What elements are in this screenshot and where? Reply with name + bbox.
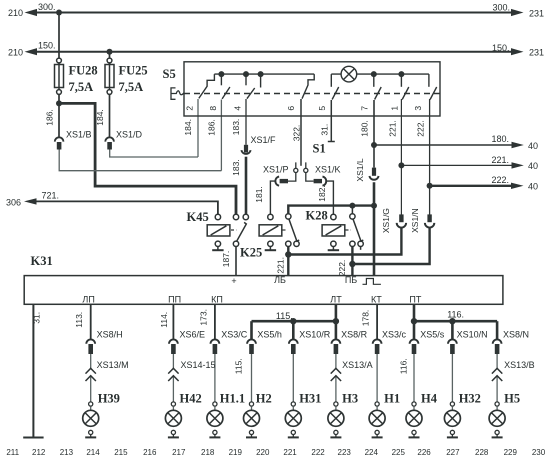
svg-text:210: 210 xyxy=(8,47,23,57)
lamp circuit H3 wire xyxy=(335,304,338,339)
svg-text:222.: 222. xyxy=(416,120,426,137)
lamp H42 xyxy=(171,402,175,406)
S5 fixed stub pin3 xyxy=(428,74,430,87)
wire thick highlight FU28 to K45 contact xyxy=(59,103,236,214)
wire S5 pin7 down xyxy=(373,100,375,145)
svg-text:181.: 181. xyxy=(254,186,264,203)
wire XS5/h to lamp H2 xyxy=(251,354,253,402)
wire 182 XS1/K to K28 coil xyxy=(327,181,334,214)
node 210 left arrow on bus 300 xyxy=(25,9,38,16)
wire thick XS1/G down and left to LB node xyxy=(288,228,401,255)
wire XS8/H to lamp H39 xyxy=(90,354,92,402)
svg-text:ЛТ: ЛТ xyxy=(330,295,342,305)
svg-text:223: 223 xyxy=(338,448,352,457)
svg-text:221.: 221. xyxy=(492,155,510,165)
svg-text:224: 224 xyxy=(365,448,379,457)
svg-text:XS1/D: XS1/D xyxy=(116,129,143,139)
svg-text:222.: 222. xyxy=(337,260,347,277)
svg-text:222: 222 xyxy=(311,448,325,457)
S5 fixed stub pin4 xyxy=(245,74,247,85)
svg-text:7,5A: 7,5A xyxy=(69,80,94,94)
lamp circuit H42 wire xyxy=(172,304,174,339)
wire 31 ground from K31 xyxy=(23,304,43,437)
wire 221 output to node 40 xyxy=(401,164,516,166)
junction bus150/FU25 xyxy=(107,49,113,55)
svg-text:221.: 221. xyxy=(388,120,398,137)
wire 721 to node 306 from K45 coil xyxy=(37,201,218,214)
svg-text:XS6/E: XS6/E xyxy=(180,329,206,339)
K45 mech link xyxy=(231,229,237,231)
svg-text:XS1/L: XS1/L xyxy=(355,158,365,181)
svg-text:217: 217 xyxy=(172,448,186,457)
connector XS1/L xyxy=(369,168,378,180)
connector XS1/D xyxy=(105,137,114,149)
svg-text:H2: H2 xyxy=(256,391,272,405)
relay K45 contact xyxy=(233,214,248,246)
svg-text:40: 40 xyxy=(528,141,538,151)
node 231 right arrow on bus 300 xyxy=(511,9,524,16)
ground under lamp H42 xyxy=(172,435,174,438)
svg-text:8: 8 xyxy=(208,106,218,111)
lamp circuit H1.1 wire xyxy=(214,304,216,339)
svg-text:180.: 180. xyxy=(360,120,370,137)
lamp H1.1 xyxy=(213,402,217,406)
lamp H32 xyxy=(450,402,454,406)
svg-text:ПТ: ПТ xyxy=(409,295,421,305)
svg-text:XS8/N: XS8/N xyxy=(503,329,529,339)
connector XS13/M xyxy=(86,368,96,381)
connector XS13/B xyxy=(492,368,502,381)
junction wire221 xyxy=(398,162,404,168)
svg-text:180.: 180. xyxy=(492,134,510,144)
lamp circuit H32 wire xyxy=(451,321,454,339)
S5 contact pin3 blade xyxy=(430,87,437,100)
lamp H1 xyxy=(375,402,379,406)
node 231 right arrow on bus 150 xyxy=(511,48,524,55)
svg-text:6: 6 xyxy=(286,106,296,111)
K31 pulse symbol xyxy=(363,279,381,285)
node 210 left arrow on bus 150 xyxy=(25,48,38,55)
lamp H39 xyxy=(89,402,93,406)
ground under lamp H2 xyxy=(251,435,253,438)
svg-text:221.: 221. xyxy=(276,257,286,274)
junction wire222 xyxy=(427,183,433,189)
S5 actuator handle xyxy=(171,88,184,99)
connector XS1/N xyxy=(425,214,434,227)
wire S5 pin5 to ground tail 31 xyxy=(328,100,335,142)
svg-text:216: 216 xyxy=(143,448,157,457)
svg-text:XS1/N: XS1/N xyxy=(410,208,420,233)
svg-text:H39: H39 xyxy=(98,391,120,405)
wire thick XS1/N down and left to PB node xyxy=(352,228,429,265)
wire XS8/N to lamp H5 xyxy=(496,354,498,402)
svg-text:226: 226 xyxy=(417,448,431,457)
svg-text:300.: 300. xyxy=(493,3,511,13)
svg-text:231: 231 xyxy=(529,48,544,58)
svg-text:S1: S1 xyxy=(313,142,326,156)
connector XS1/K xyxy=(314,177,327,186)
svg-text:115.: 115. xyxy=(276,311,293,321)
wire FU25 bottom to XS1/D xyxy=(109,95,111,138)
connector XS8/N xyxy=(493,339,502,343)
wire FU28 junction down to XS1/B xyxy=(58,103,60,137)
S5 internal top bus left xyxy=(214,73,314,75)
S1 contact circles xyxy=(294,168,298,172)
connector XS1/G xyxy=(397,214,406,227)
wire PB K28 contact down to K31 xyxy=(351,247,353,277)
svg-text:3: 3 xyxy=(413,106,423,111)
relay K25 coil xyxy=(259,214,282,250)
svg-text:306: 306 xyxy=(6,197,21,207)
svg-text:H31: H31 xyxy=(299,391,321,405)
svg-text:213: 213 xyxy=(60,448,74,457)
ground under lamp H32 xyxy=(451,435,453,438)
svg-text:1: 1 xyxy=(390,106,400,111)
wire S5 pin8 down xyxy=(220,100,222,171)
wire 115 distribution from LT xyxy=(252,320,336,323)
wire 184 gray from XS1/D to S5 pin2 xyxy=(110,150,198,158)
wire 186 gray from XS1/B to S5 pin8 xyxy=(59,150,221,171)
svg-text:H5: H5 xyxy=(504,391,520,405)
junction LB wire254 xyxy=(285,251,291,257)
S5 fixed stub pin8 xyxy=(220,74,222,85)
junction PB wire264 xyxy=(349,261,355,267)
connector XS14-15 xyxy=(168,368,178,381)
svg-text:210: 210 xyxy=(8,8,23,18)
svg-text:150.: 150. xyxy=(492,43,510,53)
wire from bus150 down to FU25 xyxy=(109,52,111,58)
svg-text:227: 227 xyxy=(446,448,460,457)
connector XS10/R xyxy=(289,339,298,343)
svg-text:182.: 182. xyxy=(317,185,327,202)
wire XS10/R to lamp H31 xyxy=(292,354,294,402)
wire bus 300 xyxy=(33,12,517,14)
svg-text:K31: K31 xyxy=(31,254,53,268)
svg-text:ЛП: ЛП xyxy=(82,295,94,305)
K25 mech link xyxy=(283,229,288,231)
wire pin7 to XS1/L xyxy=(373,145,375,168)
fuse FU25 7,5A xyxy=(105,58,114,94)
svg-text:4: 4 xyxy=(233,106,243,111)
junction S5 bus pin7 xyxy=(371,71,377,77)
svg-text:173.: 173. xyxy=(199,309,209,326)
svg-text:184.: 184. xyxy=(183,119,193,136)
svg-text:40: 40 xyxy=(528,181,538,191)
connector XS3/c xyxy=(373,339,382,343)
wire S5 pin6 down to S1 xyxy=(300,99,302,166)
svg-text:КП: КП xyxy=(211,295,223,305)
svg-text:187.: 187. xyxy=(221,251,231,268)
S5 contact pin4 blade xyxy=(247,88,255,99)
relay K25 contact xyxy=(286,214,300,247)
S5 dashed actuator line xyxy=(184,93,440,95)
svg-text:229: 229 xyxy=(504,448,518,457)
wire 116 distribution from PT xyxy=(414,320,497,323)
connector XS1/B xyxy=(55,137,64,149)
ground under lamp H5 xyxy=(496,435,498,438)
connector XS10/N xyxy=(448,339,457,343)
svg-text:FU28: FU28 xyxy=(69,63,98,77)
wire XS5/s to lamp H4 xyxy=(413,354,415,402)
svg-text:721.: 721. xyxy=(42,191,60,201)
svg-text:31.: 31. xyxy=(32,312,42,324)
S5 contact pin8 blade xyxy=(222,87,230,99)
svg-text:228: 228 xyxy=(475,448,489,457)
svg-text:322.: 322. xyxy=(291,125,301,142)
ground under lamp H1.1 xyxy=(214,435,216,438)
svg-text:7,5A: 7,5A xyxy=(119,80,144,94)
svg-text:220: 220 xyxy=(256,448,270,457)
relay K28 contact xyxy=(350,206,364,250)
svg-text:215: 215 xyxy=(114,448,128,457)
svg-text:178.: 178. xyxy=(361,310,371,327)
wire XS8/R to lamp H3 xyxy=(335,354,337,402)
svg-text:222.: 222. xyxy=(492,175,510,185)
lamp H3 xyxy=(334,402,338,406)
svg-text:231: 231 xyxy=(529,9,544,19)
connector XS5/s xyxy=(410,339,419,343)
svg-text:H1: H1 xyxy=(384,391,400,405)
lamp circuit H1 wire xyxy=(376,304,378,339)
lamp circuit H5 wire xyxy=(496,321,499,339)
svg-text:300.: 300. xyxy=(38,2,56,12)
svg-text:XS13/M: XS13/M xyxy=(97,360,129,370)
wire thick XS1/L down to K31 KT xyxy=(373,182,376,276)
wire pin3 to XS1/N xyxy=(429,186,431,215)
connector XS1/P xyxy=(275,177,288,186)
switch S5 box xyxy=(184,62,440,116)
svg-text:114.: 114. xyxy=(159,312,169,328)
svg-text:5: 5 xyxy=(317,106,327,111)
wire 187 K45 contact to K31 plus xyxy=(235,247,237,277)
junction S5 bus pin1 xyxy=(398,71,404,77)
svg-text:H3: H3 xyxy=(342,391,358,405)
junction wire180 xyxy=(371,142,377,148)
wire XS10/N to lamp H32 xyxy=(451,354,453,402)
S5 contact pin6 blade and step xyxy=(302,74,314,99)
svg-text:K25: K25 xyxy=(240,246,262,260)
ground under lamp H3 xyxy=(335,435,337,438)
wire S1 left to XS1/P xyxy=(288,173,296,181)
svg-text:221: 221 xyxy=(283,448,297,457)
lamp circuit H2 wire xyxy=(250,321,253,339)
svg-text:+: + xyxy=(231,276,236,286)
svg-text:H32: H32 xyxy=(459,391,481,405)
wire thick to K25/K28 contacts xyxy=(288,206,374,214)
lamp H4 xyxy=(412,402,416,406)
ground under lamp H31 xyxy=(292,435,294,438)
svg-text:225: 225 xyxy=(392,448,406,457)
svg-text:XS1/G: XS1/G xyxy=(381,208,391,233)
svg-text:7: 7 xyxy=(359,106,369,111)
S5 contact pin2 blade and step xyxy=(199,74,215,98)
S5 contact pin1 blade xyxy=(402,87,409,100)
wire pin1 to XS1/G xyxy=(400,165,402,214)
svg-text:XS1/K: XS1/K xyxy=(315,164,341,174)
svg-text:XS3/C: XS3/C xyxy=(221,329,248,339)
svg-text:XS14-15: XS14-15 xyxy=(181,360,216,370)
connector XS13/A xyxy=(331,368,341,381)
wire 183 thick XS1/F to K45 contact xyxy=(245,157,248,215)
S5 fixed stub pin1 xyxy=(400,74,402,87)
svg-text:XS3/c: XS3/c xyxy=(382,329,407,339)
svg-text:211: 211 xyxy=(6,448,19,457)
svg-text:S5: S5 xyxy=(163,67,176,81)
svg-text:115.: 115. xyxy=(234,358,244,374)
svg-text:183.: 183. xyxy=(231,119,241,136)
svg-text:186.: 186. xyxy=(206,119,216,136)
svg-text:113.: 113. xyxy=(74,312,84,328)
svg-text:40: 40 xyxy=(528,161,538,171)
svg-text:FU25: FU25 xyxy=(119,63,148,77)
lamp H2 xyxy=(249,402,253,406)
wire XS3/C to lamp H1.1 xyxy=(214,354,216,402)
svg-text:H1.1: H1.1 xyxy=(220,391,245,405)
wire 181 XS1/P to K25 coil xyxy=(270,181,275,214)
connector XS3/C xyxy=(211,339,220,343)
lamp H5 xyxy=(495,402,499,406)
S5 fixed stub mid xyxy=(260,74,262,87)
svg-text:31.: 31. xyxy=(320,124,330,136)
svg-text:186.: 186. xyxy=(45,109,55,126)
S5 illumination lamp xyxy=(341,66,357,82)
wire XS6/E to lamp H42 xyxy=(172,354,174,402)
S5 fixed stub pin5 xyxy=(330,74,332,87)
svg-text:H42: H42 xyxy=(180,391,202,405)
svg-text:XS1/F: XS1/F xyxy=(251,135,277,145)
wire S5 pin3 down xyxy=(429,99,431,186)
relay box K31 xyxy=(24,276,503,305)
relay K28 coil xyxy=(322,214,345,250)
relay K45 coil xyxy=(207,214,230,250)
svg-text:K45: K45 xyxy=(187,210,209,224)
svg-text:ПП: ПП xyxy=(168,295,181,305)
svg-text:214: 214 xyxy=(86,448,100,457)
svg-text:XS1/P: XS1/P xyxy=(263,164,289,174)
svg-text:XS5/s: XS5/s xyxy=(420,329,445,339)
svg-text:XS1/B: XS1/B xyxy=(66,129,92,139)
S5 contact pin7 blade xyxy=(375,87,382,100)
svg-text:КТ: КТ xyxy=(371,295,382,305)
svg-text:212: 212 xyxy=(32,448,46,457)
svg-text:116.: 116. xyxy=(447,309,464,319)
S5 contact pin5 blade xyxy=(332,87,339,100)
wire S1 right to XS1/K xyxy=(306,173,314,181)
svg-text:ЛБ: ЛБ xyxy=(274,275,286,285)
S5 fixed stub pin7 xyxy=(373,74,375,87)
svg-text:XS8/R: XS8/R xyxy=(341,329,368,339)
ground under lamp H39 xyxy=(90,435,92,438)
junction K25/K28 contact feed xyxy=(371,203,377,209)
connector XS5/h xyxy=(247,339,256,343)
junction S5 bus pin4 xyxy=(243,71,249,77)
connector XS6/E xyxy=(169,339,178,343)
wire XS3/c to lamp H1 xyxy=(376,354,378,402)
svg-text:XS10/N: XS10/N xyxy=(457,329,488,339)
wire 180 output to node 40 xyxy=(374,144,517,146)
svg-text:150.: 150. xyxy=(38,41,56,51)
lamp circuit H39 wire xyxy=(90,304,92,339)
svg-text:2: 2 xyxy=(185,106,195,111)
junction S5 bus pin8 xyxy=(218,71,224,77)
pushbutton S1 plunger xyxy=(296,162,306,168)
junction K28 contact feed xyxy=(349,203,355,209)
svg-text:230: 230 xyxy=(532,448,546,457)
wire from bus300 down to FU28 xyxy=(58,13,60,59)
wire LB K25 contact down to K31 xyxy=(287,247,289,277)
connector XS8/R xyxy=(332,339,341,343)
svg-text:184.: 184. xyxy=(95,109,105,126)
svg-text:XS8/H: XS8/H xyxy=(97,329,123,339)
K28 mech link xyxy=(346,229,352,231)
junction bus300/FU28 xyxy=(56,10,62,16)
wire 222 output to node 40 xyxy=(430,185,516,187)
lamp H31 xyxy=(291,402,295,406)
ground under lamp H4 xyxy=(413,435,415,438)
ground under lamp H1 xyxy=(376,435,378,438)
connector XS8/H xyxy=(86,339,95,343)
lamp circuit H31 wire xyxy=(292,321,295,339)
wire S5 pin1 down xyxy=(400,99,402,165)
svg-text:XS5/h: XS5/h xyxy=(257,329,282,339)
svg-text:219: 219 xyxy=(229,448,243,457)
lamp circuit H4 wire xyxy=(413,304,416,339)
junction S5 bus mid xyxy=(258,71,264,77)
svg-text:XS13/B: XS13/B xyxy=(504,360,535,370)
svg-text:116.: 116. xyxy=(399,358,409,374)
junction FU28/XS1B/K45-feed xyxy=(56,100,62,106)
svg-text:218: 218 xyxy=(201,448,215,457)
wire FU28 bottom to junction xyxy=(58,95,60,104)
wire S5 pin4 down to XS1/F xyxy=(245,99,247,145)
svg-text:183.: 183. xyxy=(231,159,241,176)
connector XS1/F xyxy=(241,145,250,154)
svg-text:H4: H4 xyxy=(421,391,438,405)
S5 right bus with lamp xyxy=(331,73,429,75)
wire S5 pin2 down xyxy=(197,99,199,157)
svg-text:XS10/R: XS10/R xyxy=(299,329,331,339)
svg-text:XS13/A: XS13/A xyxy=(342,360,373,370)
svg-text:K28: K28 xyxy=(306,209,328,223)
fuse FU28 7,5A xyxy=(55,58,64,94)
wire bus 150 xyxy=(33,51,517,53)
